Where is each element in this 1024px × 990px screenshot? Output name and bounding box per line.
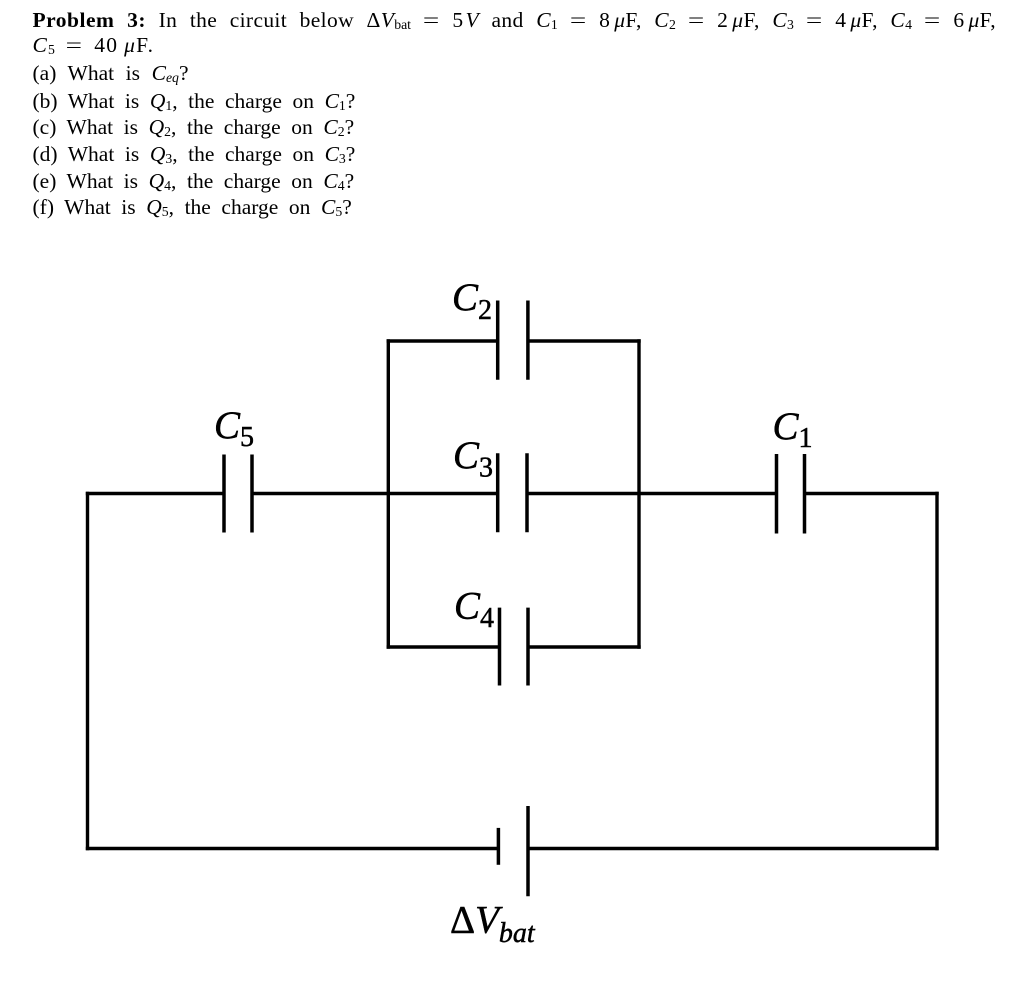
svg-text:C3: C3	[453, 434, 493, 484]
wire: inner box top, left segment to C2	[387, 339, 498, 342]
wire: main horizontal, left end to C5 left plate	[86, 492, 224, 495]
wire: inner box top, C2 to right corner	[528, 339, 641, 342]
capacitor C2	[498, 301, 528, 380]
wire: bottom wire, right of battery	[528, 847, 939, 850]
wire: inner box left vertical	[387, 339, 390, 648]
capacitor C3	[498, 453, 527, 532]
capacitor C5	[224, 455, 252, 533]
svg-text:C4: C4	[454, 585, 494, 635]
wire: bottom wire, left of battery	[86, 847, 499, 850]
wire: main horizontal, C3 right plate to C1 left plate	[527, 492, 777, 495]
battery ΔVbat	[498, 806, 528, 896]
wire: main horizontal, C1 right plate to right end	[805, 492, 939, 495]
wire: outer right vertical	[935, 492, 938, 850]
capacitor C4	[500, 608, 529, 686]
svg-text:C2: C2	[452, 276, 492, 326]
wire: main horizontal, C5 right plate to C3 left plate	[252, 492, 498, 495]
svg-text:ΔVbat: ΔVbat	[450, 899, 536, 950]
capacitor C1	[777, 454, 805, 534]
svg-text:C1: C1	[773, 405, 813, 454]
svg-text:C5: C5	[214, 404, 254, 453]
wire: inner box right vertical	[637, 339, 640, 648]
wire: outer left vertical	[86, 492, 89, 850]
wire: inner box bottom, C4 to right corner	[528, 645, 641, 648]
problem statement text	[33, 7, 996, 38]
wire: inner box bottom, left segment to C4	[387, 645, 500, 648]
